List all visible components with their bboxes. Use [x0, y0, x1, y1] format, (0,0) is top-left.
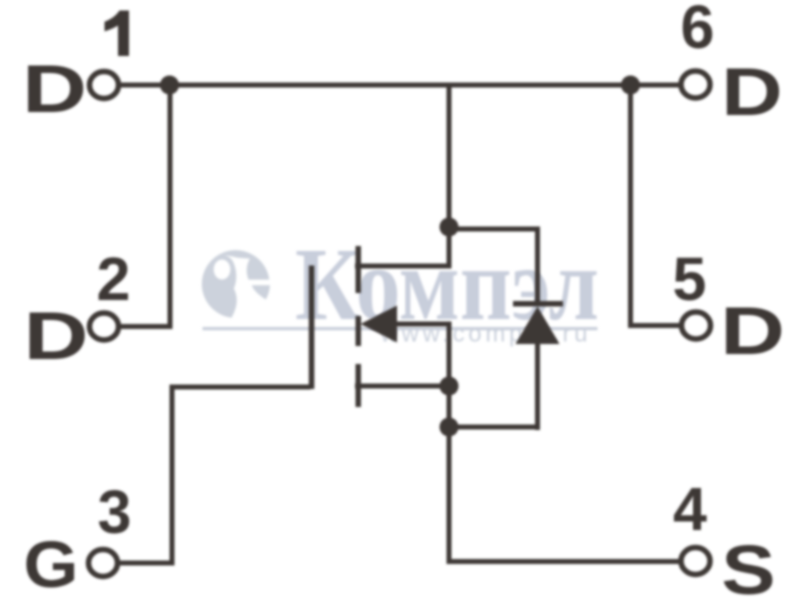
- stylized 'e' lower lens piece: [252, 285, 270, 299]
- terminal S pin 4 label "S": [721, 531, 775, 600]
- wire: pin3 horizontal: [117, 561, 172, 566]
- wire: right vertical from top bus down to pin5 row: [628, 85, 633, 328]
- wire: mosfet body lead horizontal from arrow: [394, 322, 449, 327]
- wire: source bus vertical (body junction down to pin4 row): [447, 386, 452, 564]
- wire: gate lead horizontal: [170, 385, 311, 390]
- transistor Q1 gate bar: [309, 266, 315, 390]
- compel logo emblem: [202, 250, 270, 318]
- pin 5 circle: [682, 312, 711, 339]
- terminal D pin 5 label "D": [720, 293, 785, 369]
- svg-text:S: S: [721, 531, 775, 600]
- svg-text:5: 5: [673, 245, 707, 313]
- svg-text:3: 3: [98, 478, 132, 546]
- svg-text:D: D: [721, 54, 782, 130]
- node: drain junction dot: [440, 218, 459, 237]
- node: diode anode junction dot: [440, 418, 459, 437]
- svg-text:2: 2: [97, 245, 131, 313]
- stylized 'e' upper arc piece: [219, 250, 269, 279]
- wire: mosfet source lead horizontal: [355, 384, 449, 389]
- svg-text:D: D: [720, 293, 785, 369]
- node: junction dot at pin1 branch: [160, 76, 179, 95]
- transistor Q1 channel segment (body): [356, 316, 362, 346]
- stylized 'c' comma shape: [202, 255, 237, 318]
- wire: drain junction down to mosfet drain lead level: [447, 227, 452, 269]
- diode D1 cathode bar: [513, 301, 563, 307]
- wire: pin4 horizontal: [447, 559, 682, 564]
- terminal D pin 6 label "D": [721, 54, 782, 130]
- diode D1 anode triangle: [516, 307, 560, 345]
- wire: diode bottom vertical: [535, 344, 540, 430]
- wire: mosfet drain lead horizontal: [355, 264, 450, 269]
- wire: body lead vertical down to source junction: [447, 322, 452, 387]
- svg-text:D: D: [24, 298, 89, 374]
- pin 2 circle: [90, 313, 119, 340]
- terminal D pin 1 label "D": [22, 51, 87, 127]
- transistor Q1 channel segment (source): [356, 364, 362, 407]
- terminal D pin 2 label "D": [24, 298, 89, 374]
- pin 6 circle: [681, 71, 710, 98]
- svg-text:G: G: [24, 528, 79, 600]
- transistor Q1 channel segment (drain): [356, 246, 362, 293]
- watermark underline: [203, 327, 598, 330]
- wire: pin5 horizontal: [630, 323, 682, 328]
- wire: center vertical from top bus to drain junction: [447, 85, 452, 228]
- wire: gate lead vertical down to pin3 row: [170, 385, 175, 566]
- wire: pin2 horizontal: [118, 324, 170, 329]
- terminal G pin 3 label "G": [24, 528, 79, 600]
- pin 3 circle: [89, 550, 118, 577]
- svg-text:D: D: [22, 51, 87, 127]
- wire: diode top vertical down to cathode: [535, 227, 540, 305]
- wire: diode branch top horizontal: [449, 227, 540, 232]
- node: junction dot at pin6 branch: [621, 76, 640, 95]
- wire: diode bottom horizontal to source bus: [449, 425, 540, 430]
- pin 1 label "1": [105, 11, 130, 57]
- node: source/body junction dot: [440, 377, 459, 396]
- wire: top drain bus (pin1 to pin6): [118, 83, 681, 88]
- pin 4 circle: [681, 548, 710, 575]
- svg-text:4: 4: [673, 475, 707, 543]
- wire: left vertical from top bus down to pin2 row: [168, 85, 173, 329]
- pin 1 circle: [90, 72, 119, 99]
- transistor Q1 body arrow: [361, 306, 398, 343]
- svg-text:6: 6: [681, 0, 715, 61]
